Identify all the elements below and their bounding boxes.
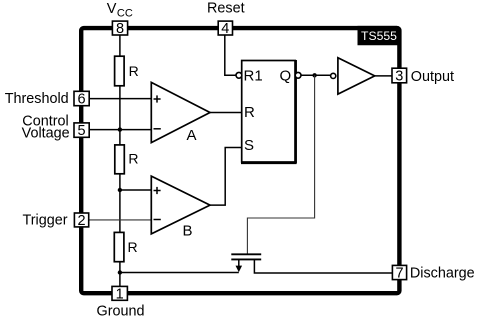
label Discharge [410,265,475,281]
label Reset [207,1,245,17]
wire: ground rail to transistor source [120,272,239,274]
svg-text:B: B [183,223,193,240]
label Control Voltage [22,114,70,142]
pin 3 Output [392,68,407,84]
wire: pin 6 threshold to comparator A + input [89,98,151,100]
label Ground [97,303,145,319]
junction node: Q output net [312,73,316,77]
pin 4 Reset [218,21,232,37]
wire: divider between R top and R middle [119,86,121,146]
svg-text:1: 1 [116,286,124,302]
wire: buffer output to pin 3 [375,75,392,77]
junction node: divider 1/3 Vcc at comparator B + [118,188,122,192]
transistor Q1 discharge MOSFET [231,254,392,273]
label Threshold [5,91,69,107]
svg-text:7: 7 [395,266,403,282]
wire: pin 5 control voltage to comparator A - input [89,129,151,131]
inverting bubble on flip-flop R1 input [236,72,242,78]
svg-text:2: 2 [77,213,85,229]
pin 6 Threshold [74,91,89,107]
pin 7 Discharge [392,265,406,281]
wire: divider between R middle and R bottom [119,174,121,233]
resistor R (top, VCC divider) [115,56,139,86]
wire: Q net down and across to transistor gate [247,75,314,253]
wire: R bottom to pin 1 ground [119,262,121,287]
svg-text:6: 6 [78,92,86,108]
resistor R (middle, divider) [115,145,139,174]
svg-text:Ground: Ground [97,303,145,319]
wire: pin 4 reset to flip-flop R1 input [225,35,236,76]
svg-text:V: V [107,1,117,17]
svg-text:Q: Q [280,67,292,84]
pin 2 Trigger [74,213,88,229]
inverting bubble on flip-flop Q output [295,72,301,78]
svg-text:Reset: Reset [207,1,245,17]
op-amp comparator A [151,82,210,144]
svg-text:R: R [244,104,255,121]
pin 1 Ground [112,286,127,302]
svg-text:CC: CC [117,7,133,19]
svg-text:4: 4 [221,21,229,37]
pin 5 Control Voltage [74,123,89,139]
svg-text:Threshold: Threshold [5,91,69,107]
junction node: ground rail at divider bottom [118,270,122,274]
output buffer U2 [338,58,375,94]
wire: pin 8 to resistor R top [119,35,121,57]
svg-text:TS555: TS555 [361,29,397,43]
svg-text:R1: R1 [244,68,263,85]
svg-text:R: R [128,151,138,167]
svg-text:8: 8 [116,21,124,37]
resistor R (bottom, divider) [114,232,137,261]
TS555 part label tab [358,26,402,45]
svg-text:R: R [128,239,138,255]
svg-text:A: A [187,127,197,144]
wire: Q output to buffer input [301,74,331,76]
label Output [411,69,454,85]
IC boundary box [81,28,399,293]
svg-text:Discharge: Discharge [410,265,475,281]
wire: comparator B output to flip-flop S input [210,148,242,206]
svg-text:S: S [244,137,254,154]
wire: comparator A output to flip-flop R input [210,112,242,114]
inverting bubble on output buffer input [331,73,336,78]
pin 8 VCC [112,21,127,37]
svg-text:Output: Output [411,69,454,85]
svg-text:Voltage: Voltage [22,126,70,142]
label Trigger [23,213,68,229]
wire: divider 1/3 Vcc node to comparator B + input [120,189,151,191]
svg-text:R: R [129,63,139,79]
wire: pin 2 trigger to comparator B - input [89,219,151,221]
svg-text:Trigger: Trigger [23,213,68,229]
junction node: divider 2/3 Vcc at comparator A - [118,127,122,131]
flip-flop U1 [241,60,297,163]
svg-text:5: 5 [78,123,86,139]
op-amp comparator B [151,176,210,239]
label VCC [107,1,133,19]
svg-text:3: 3 [395,69,403,85]
